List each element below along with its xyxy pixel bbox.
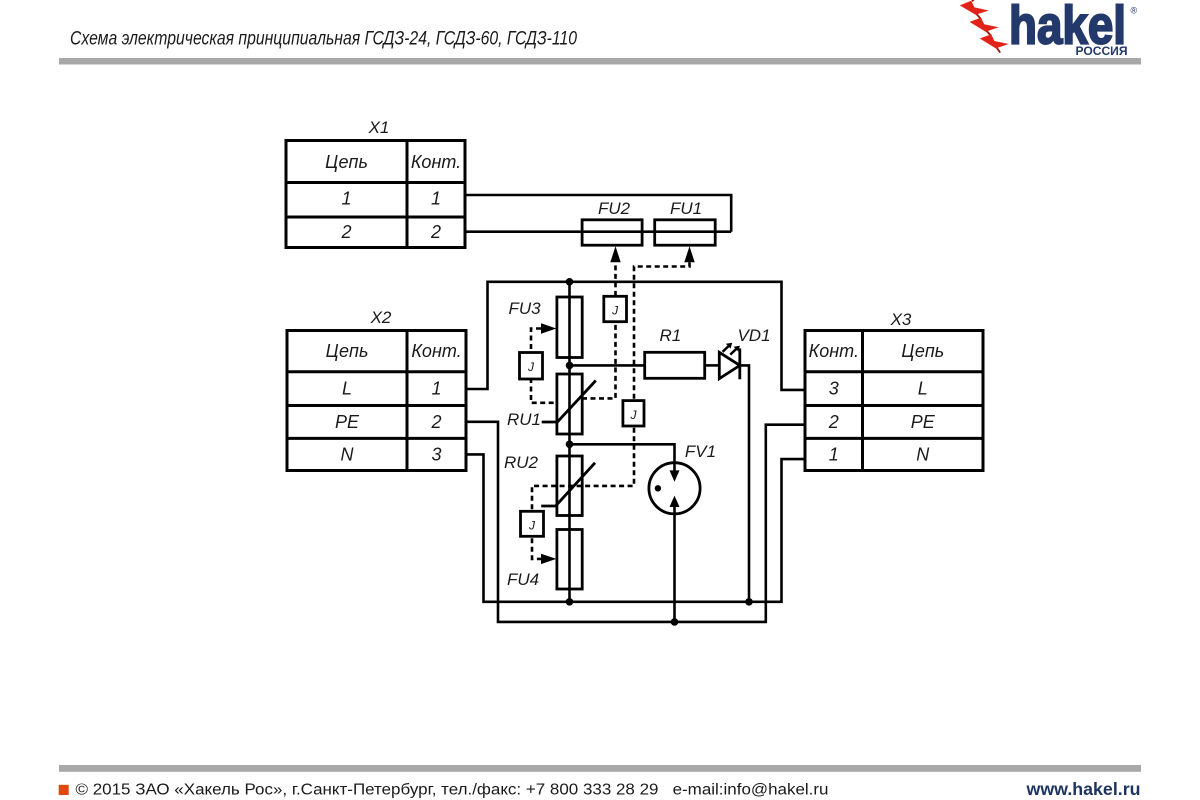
svg-text:PE: PE [911, 412, 936, 432]
wire PE bus: X2 pin2 down along bottom to X3 pin2 [466, 422, 805, 622]
svg-text:1: 1 [341, 189, 351, 209]
wire L bus: X2 pin1 up over to X3 pin3 [466, 282, 805, 390]
svg-text:1: 1 [829, 445, 839, 465]
wire mid node to R1 [570, 364, 645, 367]
hakel logo lightning bolt 3 [980, 34, 1009, 48]
arrow into FU3 [541, 323, 556, 333]
wire N bus: X2 pin3 down along bottom to X3 pin1 [466, 454, 805, 601]
wire R1 to VD1 [705, 364, 720, 367]
signal contact J1 [520, 353, 543, 380]
svg-text:3: 3 [829, 379, 839, 399]
wire X1 pin2 through fuses [465, 230, 731, 233]
LED VD1 [719, 346, 740, 379]
hakel logo lightning bolt 2 [970, 18, 999, 32]
signal contact J2 [604, 296, 627, 321]
svg-text:J: J [528, 519, 536, 533]
junction node top of FU3 [566, 278, 574, 286]
svg-text:2: 2 [828, 412, 839, 432]
svg-text:J: J [630, 408, 638, 422]
svg-text:2: 2 [430, 222, 441, 242]
connector table X1 [286, 141, 465, 248]
arrester FV1 electrodes [655, 463, 680, 622]
arrow into FU1 [684, 246, 694, 262]
svg-text:РОССИЯ: РОССИЯ [1076, 44, 1128, 58]
fuse FU4 [557, 530, 582, 590]
dashed link FU1 J3 RU2 J4 FU4 [532, 262, 690, 559]
svg-text:Схема электрическая принципиал: Схема электрическая принципиальная ГСДЗ-… [70, 29, 577, 50]
svg-text:1: 1 [431, 189, 441, 209]
svg-text:3: 3 [431, 445, 441, 465]
arrow into FU2 [610, 246, 620, 262]
fuse FU3 [557, 297, 582, 358]
svg-text:VD1: VD1 [737, 326, 770, 345]
wire mid node to FV1 [570, 444, 675, 463]
svg-text:Цепь: Цепь [325, 152, 368, 172]
connector table X2 [287, 331, 466, 471]
svg-text:PE: PE [335, 412, 360, 432]
wire main vertical through FU3 RU1 RU2 FU4 [568, 282, 571, 602]
svg-text:J: J [611, 304, 619, 318]
connector table X1 cell texts [325, 152, 461, 242]
junction node between RU1 RU2 [566, 441, 574, 449]
svg-text:Конт.: Конт. [411, 341, 461, 361]
fuse FU1 [655, 220, 716, 245]
junction node VD1 bottom [745, 598, 753, 606]
svg-text:2: 2 [430, 412, 441, 432]
svg-text:FU2: FU2 [598, 199, 631, 218]
svg-text:www.hakel.ru: www.hakel.ru [1025, 779, 1140, 799]
arrow into FU4 [541, 554, 556, 564]
varistor RU1 [542, 374, 596, 434]
svg-text:Конт.: Конт. [809, 341, 859, 361]
svg-text:J: J [527, 360, 535, 374]
svg-text:L: L [342, 379, 352, 399]
svg-text:FU4: FU4 [507, 570, 539, 589]
dashed link RU1 to J2 and FU2 [582, 262, 616, 398]
footer rule bar [59, 765, 1141, 772]
connector table X2 cell texts [326, 341, 462, 465]
svg-text:FU3: FU3 [508, 299, 541, 318]
hakel logo lightning bolt 1 [960, 1, 989, 15]
dashed link RU1 to J1 and FU3 [531, 329, 557, 403]
svg-text:RU2: RU2 [504, 453, 539, 472]
svg-text:FU1: FU1 [670, 199, 702, 218]
signal contact J4 [521, 511, 544, 536]
hakel logo bolt connectors [972, 0, 1000, 53]
wire VD1 down to N bus [740, 365, 749, 601]
svg-text:X2: X2 [370, 308, 392, 327]
svg-text:1: 1 [431, 379, 441, 399]
signal contact J3 [623, 401, 644, 426]
svg-text:R1: R1 [660, 326, 682, 345]
svg-text:N: N [916, 445, 930, 465]
junction node FU4 bottom [566, 598, 574, 606]
svg-text:© 2015 ЗАО «Хакель Рос», г.Сан: © 2015 ЗАО «Хакель Рос», г.Санкт-Петербу… [76, 782, 829, 799]
junction node below FU3 [566, 362, 574, 370]
svg-text:®: ® [1131, 6, 1138, 16]
svg-text:N: N [341, 445, 355, 465]
svg-text:Цепь: Цепь [326, 341, 369, 361]
svg-text:RU1: RU1 [507, 410, 541, 429]
footer red square [59, 785, 69, 795]
fuse FU2 [582, 220, 642, 245]
connector table X3 cell texts [809, 341, 945, 465]
wire X1 pin1 to FU1 right [465, 195, 731, 232]
svg-text:Конт.: Конт. [411, 152, 461, 172]
header rule bar [59, 58, 1141, 65]
svg-text:X1: X1 [368, 118, 390, 137]
svg-text:Цепь: Цепь [901, 341, 944, 361]
connector table X3 [805, 331, 983, 471]
junction node FV1 bottom [671, 618, 679, 626]
LED VD1 light arrowheads [726, 343, 740, 352]
svg-text:2: 2 [340, 222, 351, 242]
resistor R1 [645, 352, 705, 378]
svg-text:L: L [918, 379, 928, 399]
svg-text:X3: X3 [890, 310, 912, 329]
varistor RU2 [541, 456, 595, 516]
arrester FV1 circle [649, 463, 700, 514]
svg-text:FV1: FV1 [685, 442, 716, 461]
